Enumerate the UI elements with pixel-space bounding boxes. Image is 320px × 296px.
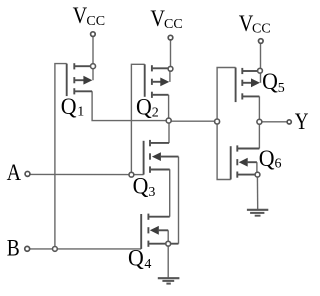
svg-text:Q: Q — [262, 69, 278, 94]
svg-text:1: 1 — [77, 105, 84, 120]
wire Q1 gate to node B — [55, 64, 67, 249]
svg-text:CC: CC — [86, 14, 105, 29]
svg-text:Q: Q — [133, 174, 149, 199]
node Q2 drain junction — [168, 66, 173, 71]
svg-text:2: 2 — [152, 105, 159, 120]
transistor Q5 — [236, 68, 260, 103]
svg-text:A: A — [7, 160, 22, 185]
node VCC2 terminal — [168, 35, 173, 40]
wire Y node to output terminal — [259, 121, 286, 123]
node Q4 source junction — [166, 241, 171, 246]
wire Q1 source to internal node line — [92, 91, 169, 120]
svg-text:CC: CC — [252, 21, 271, 36]
node Q6 source junction — [255, 172, 260, 177]
svg-text:4: 4 — [144, 257, 151, 272]
wire Q4 substrate down to source node — [167, 230, 169, 243]
wire VCC2 down to Q2 drain — [170, 40, 172, 67]
transistor Q4 — [141, 214, 178, 249]
wire Q5 substrate to drain node — [260, 73, 262, 83]
label Q4 — [128, 246, 151, 272]
node output Y terminal — [287, 120, 291, 124]
wire Q6 source node to ground — [256, 175, 258, 210]
wire Q2 gate up from node A — [131, 64, 144, 174]
wire VCC1 down to Q1 drain — [92, 36, 94, 63]
wire Q3 drain up to node — [168, 121, 170, 144]
wire input B to Q4 gate bar — [30, 248, 141, 250]
node B junction — [53, 247, 58, 252]
label VCC middle — [150, 6, 182, 32]
wire Q2 source down to node — [168, 95, 170, 121]
ground below Q4 — [158, 278, 180, 283]
node A junction — [129, 172, 134, 177]
svg-text:Q: Q — [259, 146, 275, 171]
node input B terminal — [25, 246, 30, 251]
svg-text:Q: Q — [136, 94, 152, 119]
svg-text:5: 5 — [278, 81, 285, 96]
node VCC1 terminal — [91, 32, 96, 37]
node input A terminal — [25, 171, 30, 176]
wire Q6 substrate down to source node — [256, 162, 258, 174]
wire Q3 source to Q4 drain — [169, 169, 171, 216]
wire Q3 substrate down to Q4 source node — [178, 157, 180, 244]
label Q3 — [133, 174, 156, 200]
svg-text:Q: Q — [128, 246, 144, 271]
wire Q2 substrate to drain node — [169, 71, 171, 82]
node Y junction — [257, 119, 262, 124]
svg-text:Q: Q — [61, 94, 77, 119]
wire Q6 drain up to Y node — [258, 122, 260, 149]
transistor Q3 — [144, 140, 179, 175]
wire Q4 source node to ground — [167, 244, 169, 278]
node Q2-Q3 junction — [166, 118, 171, 123]
label Q5 — [262, 69, 285, 96]
label Q2 — [136, 94, 159, 120]
wire node A to Q3 gate bar — [131, 174, 143, 176]
svg-text:3: 3 — [148, 185, 155, 200]
wire Q6 gate from node — [217, 121, 231, 179]
transistor Q2 — [145, 64, 170, 98]
wire input A to Q2/Q3 gate node — [30, 173, 131, 175]
svg-text:6: 6 — [275, 157, 282, 172]
node VCC3 terminal — [259, 39, 264, 44]
ground below Q6 — [247, 210, 268, 216]
wire Q1 substrate to drain node — [92, 69, 94, 81]
node gate junction Q5 Q6 — [215, 119, 220, 124]
svg-text:B: B — [7, 236, 20, 261]
wire VCC3 down to Q5 drain — [260, 43, 262, 68]
transistor Q6 — [231, 145, 260, 179]
label VCC left — [73, 3, 105, 29]
label Q1 — [61, 94, 84, 120]
node Q1 drain junction — [91, 64, 96, 69]
wire Q5 source down to Y node — [258, 96, 260, 121]
node Q5 drain junction — [258, 68, 263, 73]
label VCC right — [239, 11, 271, 37]
wire Q5 gate from node — [217, 68, 236, 122]
label Q6 — [259, 146, 282, 172]
svg-text:Y: Y — [295, 109, 309, 134]
svg-text:CC: CC — [164, 17, 183, 32]
svg-text:V: V — [73, 3, 88, 28]
transistor Q1 — [67, 63, 93, 96]
